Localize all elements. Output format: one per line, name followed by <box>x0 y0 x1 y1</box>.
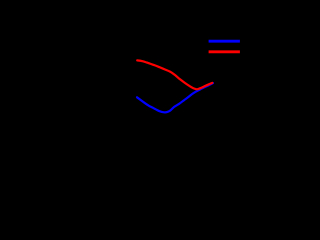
legend blue line <box>209 40 240 43</box>
legend red line <box>209 50 240 53</box>
blue curve (drawn first, under red) <box>137 83 213 112</box>
red curve (on top) <box>137 60 212 89</box>
